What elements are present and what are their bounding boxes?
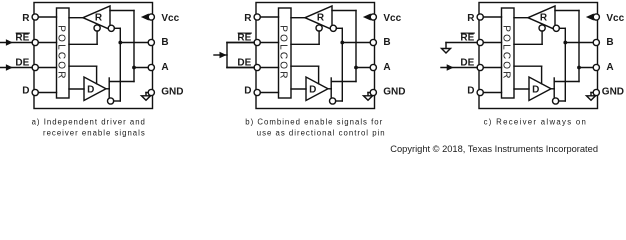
wire net A to pin A (134, 67, 149, 69)
svg-text:R: R (244, 13, 252, 24)
IC body box (34, 3, 153, 109)
wire DE pin row (32, 67, 56, 69)
wire receiver A-input horizontal (110, 10, 134, 12)
wire RE pin row (477, 42, 501, 44)
combined enable join wire (226, 43, 228, 68)
junction node A (132, 66, 136, 70)
svg-text:B: B (606, 37, 613, 48)
wire receiver A-input horizontal (555, 10, 579, 12)
wire RE pin row (32, 42, 56, 44)
svg-text:R: R (467, 13, 475, 24)
ground symbol at GND pin (591, 92, 594, 94)
pin R (477, 14, 483, 20)
wire vertical B-net (564, 28, 566, 101)
wire receiver enable vertical (541, 31, 543, 44)
wire driver output bar (553, 78, 555, 99)
wire net B to pin B (565, 42, 593, 44)
driver U-D triangle (529, 77, 551, 101)
wire receiver A-input horizontal (332, 10, 356, 12)
svg-text:D: D (87, 85, 94, 96)
input arrow to combined enable (214, 54, 227, 56)
svg-text:D: D (244, 85, 251, 96)
svg-text:POLCOR: POLCOR (277, 25, 288, 80)
overline RE (16, 32, 29, 34)
wire vertical B-net (341, 28, 343, 101)
junction node B (118, 41, 122, 45)
wire POLCOR to driver input (514, 88, 529, 90)
bubble receiver B-input (108, 25, 114, 31)
wire driver Y output (331, 81, 356, 83)
input arrow to RE (0, 42, 32, 44)
ground symbol at GND pin (368, 92, 371, 94)
junction node A (577, 66, 581, 70)
wire RE pin row (227, 42, 279, 44)
pin D (32, 89, 38, 95)
wire driver Z output horizontal (559, 100, 566, 102)
wire driver enable horizontal (291, 65, 319, 67)
svg-text:B: B (383, 37, 390, 48)
wire receiver enable vertical (96, 31, 98, 44)
wire driver apex to output bar (551, 88, 554, 90)
wire net B to pin B (120, 42, 148, 44)
svg-text:R: R (95, 12, 103, 23)
svg-text:use as directional control pin: use as directional control pin (257, 128, 386, 137)
svg-text:b) Combined enable signals for: b) Combined enable signals for (245, 117, 383, 126)
wire driver Z output horizontal (336, 100, 343, 102)
overline RE (238, 32, 251, 34)
wire D pin to POLCOR (260, 92, 278, 94)
wire driver enable vertical (318, 66, 320, 84)
wire driver enable vertical (96, 66, 98, 84)
svg-text:c) Receiver always on: c) Receiver always on (484, 117, 588, 126)
svg-text:Copyright © 2018, Texas Instru: Copyright © 2018, Texas Instruments Inco… (390, 144, 598, 154)
IC body box (256, 3, 375, 109)
pin R (32, 14, 38, 20)
wire receiver enable to POLCOR (69, 43, 97, 45)
wire receiver B-input horizontal (559, 27, 565, 29)
wire R pin to POLCOR (483, 16, 501, 18)
pin GND (370, 89, 376, 95)
bubble receiver B-input (330, 25, 336, 31)
bubble receiver enable (539, 25, 545, 31)
svg-text:receiver enable signals: receiver enable signals (43, 128, 146, 137)
receiver U-R triangle (83, 6, 110, 30)
wire DE pin row (227, 67, 279, 69)
wire R pin to POLCOR (38, 16, 56, 18)
wire receiver B-input horizontal (114, 27, 120, 29)
wire DE pin row (477, 67, 501, 69)
junction node A (354, 66, 358, 70)
svg-text:A: A (383, 62, 390, 73)
svg-text:R: R (540, 12, 548, 23)
driver U-D triangle (306, 77, 328, 101)
pin A (148, 64, 154, 70)
svg-text:A: A (606, 62, 613, 73)
svg-text:POLCOR: POLCOR (500, 25, 511, 80)
svg-text:D: D (22, 85, 29, 96)
ground tie on RE pin (446, 42, 477, 44)
wire driver output bar (108, 78, 110, 99)
pin Vcc (593, 14, 599, 20)
wire POLCOR to driver input (291, 88, 306, 90)
wire vertical A-net (133, 11, 135, 82)
pin GND (148, 89, 154, 95)
svg-text:Vcc: Vcc (161, 13, 179, 24)
svg-text:A: A (161, 62, 168, 73)
wire POLCOR to receiver output (69, 17, 83, 19)
pin DE (254, 64, 260, 70)
pin B (148, 39, 154, 45)
circuit a: independent enables (0, 3, 183, 109)
pin GND (593, 89, 599, 95)
svg-text:R: R (317, 12, 325, 23)
bubble driver Z output (330, 98, 336, 104)
wire R pin to POLCOR (260, 16, 278, 18)
pin A (593, 64, 599, 70)
wire driver enable horizontal (514, 65, 542, 67)
pin Vcc (148, 14, 154, 20)
svg-text:Vcc: Vcc (606, 13, 624, 24)
svg-text:R: R (22, 13, 30, 24)
POLCOR block U (502, 8, 515, 98)
wire net A to pin A (579, 67, 594, 69)
overline RE (461, 32, 474, 34)
wire POLCOR to driver input (69, 88, 84, 90)
wire D pin to POLCOR (483, 92, 501, 94)
wire driver Z output horizontal (114, 100, 121, 102)
Vcc supply arrow (367, 16, 371, 18)
wire driver output bar (330, 78, 332, 99)
wire driver apex to output bar (328, 88, 331, 90)
bubble receiver B-input (553, 25, 559, 31)
ground symbol at GND pin (146, 92, 149, 94)
bubble receiver enable (94, 25, 100, 31)
wire driver enable vertical (541, 66, 543, 84)
circuit b: combined enables (214, 3, 405, 109)
wire driver apex to output bar (106, 88, 109, 90)
Vcc supply arrow (590, 16, 594, 18)
Vcc supply arrow (145, 16, 149, 18)
bubble receiver enable (316, 25, 322, 31)
driver U-D triangle (84, 77, 106, 101)
svg-text:a) Independent driver and: a) Independent driver and (32, 117, 146, 126)
wire receiver B-input horizontal (336, 27, 342, 29)
pin D (477, 89, 483, 95)
bubble driver Z output (108, 98, 114, 104)
pin B (593, 39, 599, 45)
wire POLCOR to receiver output (514, 17, 528, 19)
svg-text:GND: GND (383, 86, 405, 97)
svg-text:GND: GND (602, 86, 624, 97)
pin Vcc (370, 14, 376, 20)
junction node B (340, 41, 344, 45)
wire driver enable horizontal (69, 65, 97, 67)
input arrow to DE (0, 67, 32, 69)
input arrow to DE (441, 67, 477, 69)
svg-text:B: B (161, 37, 168, 48)
wire vertical A-net (578, 11, 580, 82)
wire vertical B-net (119, 28, 121, 101)
circuit c: receiver always on (441, 3, 625, 109)
svg-text:D: D (309, 85, 316, 96)
pin R (254, 14, 260, 20)
svg-text:D: D (467, 85, 474, 96)
pin D (254, 89, 260, 95)
wire vertical A-net (355, 11, 357, 82)
bubble driver Z output (553, 98, 559, 104)
wire receiver enable to POLCOR (514, 43, 542, 45)
pin DE (477, 64, 483, 70)
wire net A to pin A (356, 67, 371, 69)
svg-text:D: D (532, 85, 539, 96)
svg-text:GND: GND (161, 86, 183, 97)
IC body box (479, 3, 598, 109)
wire driver Y output (109, 81, 134, 83)
junction node B (563, 41, 567, 45)
pin DE (32, 64, 38, 70)
pin B (370, 39, 376, 45)
wire net B to pin B (342, 42, 370, 44)
receiver U-R triangle (305, 6, 332, 30)
receiver U-R triangle (528, 6, 555, 30)
pin RE (254, 39, 260, 45)
wire D pin to POLCOR (38, 92, 56, 94)
svg-text:Vcc: Vcc (383, 13, 401, 24)
POLCOR block U (57, 8, 70, 98)
svg-text:POLCOR: POLCOR (55, 25, 66, 80)
POLCOR block U (279, 8, 292, 98)
pin A (370, 64, 376, 70)
wire POLCOR to receiver output (291, 17, 305, 19)
pin RE (477, 39, 483, 45)
wire receiver enable vertical (318, 31, 320, 44)
wire receiver enable to POLCOR (291, 43, 319, 45)
pin RE (32, 39, 38, 45)
wire driver Y output (554, 81, 579, 83)
